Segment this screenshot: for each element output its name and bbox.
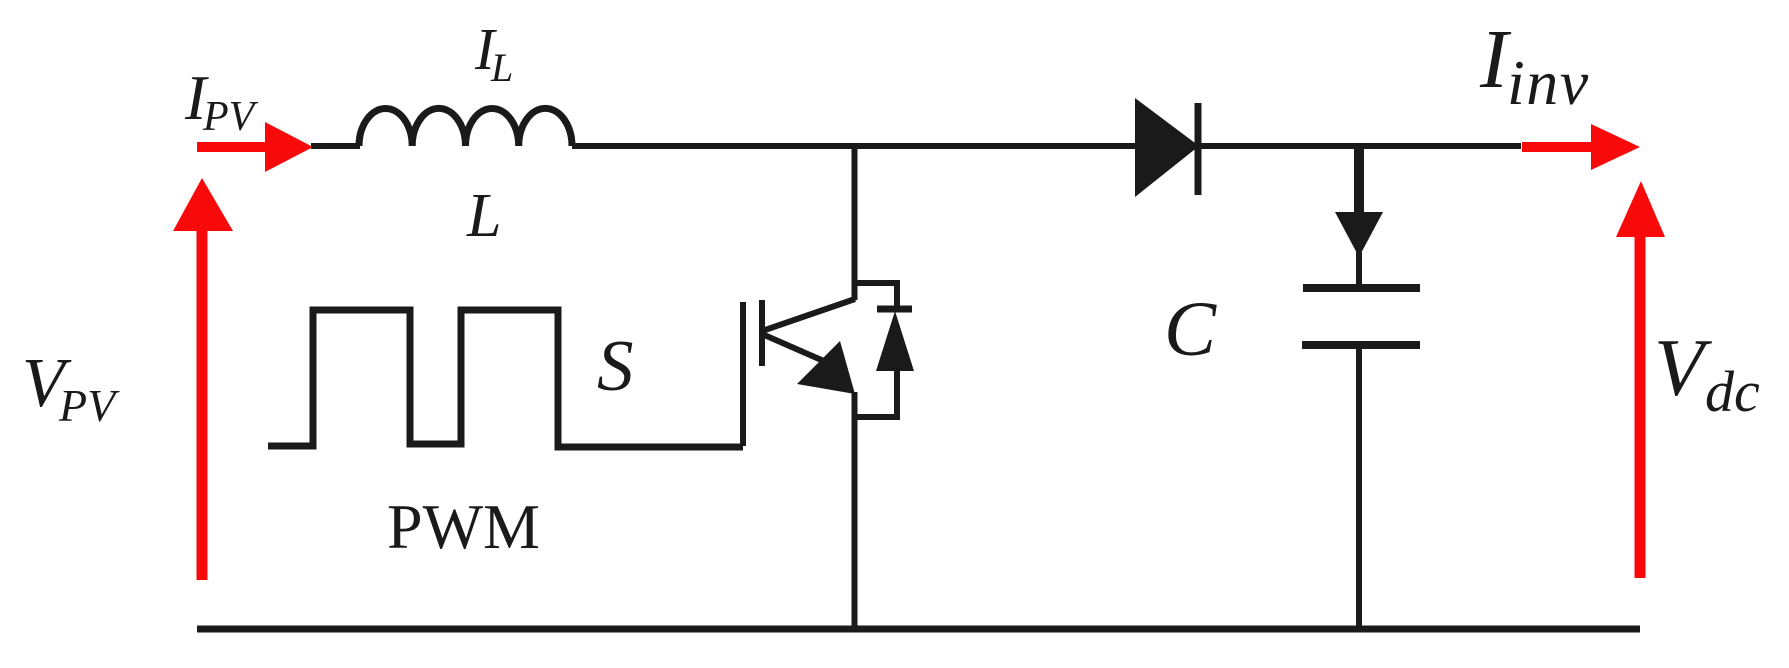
- voltage arrow V_dc (red): [1616, 181, 1665, 578]
- diode D (cathode bar): [1195, 103, 1202, 195]
- transistor S (IGBT) emitter line: [762, 334, 826, 362]
- wire: antiparallel diode branch (bottom): [856, 371, 897, 417]
- label V_PV: [22, 345, 120, 431]
- bottom rail wire: [197, 626, 1640, 633]
- inductor L: [359, 108, 572, 146]
- wire from arrow to capacitor: [1356, 252, 1362, 286]
- current arrow into capacitor (head): [1335, 212, 1383, 257]
- PWM waveform: [268, 310, 743, 447]
- wire: step to antiparallel diode branch (top): [855, 283, 898, 310]
- voltage arrow V_PV (red): [173, 178, 233, 580]
- antiparallel diode of switch (cathode bar): [877, 306, 912, 313]
- transistor S (IGBT) emitter arrowhead: [797, 341, 855, 394]
- transistor S (IGBT) collector line: [762, 299, 855, 331]
- capacitor C (bottom plate): [1302, 341, 1420, 349]
- svg-text:PWM: PWM: [387, 491, 540, 562]
- svg-text:dc: dc: [1705, 359, 1760, 424]
- transistor S (IGBT) gate lead from PWM: [740, 302, 746, 446]
- current arrow I_inv (red): [1522, 124, 1640, 170]
- wire from capacitor to bottom rail: [1356, 348, 1362, 630]
- antiparallel diode of switch (triangle, pointing up): [876, 311, 914, 371]
- svg-text:L: L: [490, 45, 513, 90]
- diode D (triangle): [1135, 98, 1199, 197]
- svg-text:V: V: [1654, 322, 1712, 413]
- label I_PV: [184, 62, 259, 140]
- label V_dc: [1654, 322, 1760, 424]
- transistor S (IGBT) gate plate bar: [759, 300, 765, 366]
- wire: emitter down to bottom rail: [852, 392, 858, 630]
- svg-text:inv: inv: [1507, 47, 1590, 118]
- wire from inductor to diode D: [572, 143, 1136, 149]
- svg-text:S: S: [597, 325, 634, 406]
- capacitor C (top plate): [1303, 284, 1420, 292]
- label I_L: [474, 16, 513, 90]
- svg-text:L: L: [466, 182, 501, 250]
- wire from I_PV arrow to inductor: [311, 143, 360, 149]
- wire: collector drop from top wire: [852, 143, 858, 300]
- wire from diode D to output: [1199, 143, 1521, 149]
- current arrow into capacitor (stem): [1354, 146, 1364, 216]
- current arrow I_PV (red): [197, 122, 313, 172]
- label I_inv: [1479, 13, 1590, 118]
- svg-text:PV: PV: [202, 94, 259, 140]
- svg-text:PV: PV: [58, 380, 120, 431]
- svg-text:C: C: [1164, 285, 1217, 372]
